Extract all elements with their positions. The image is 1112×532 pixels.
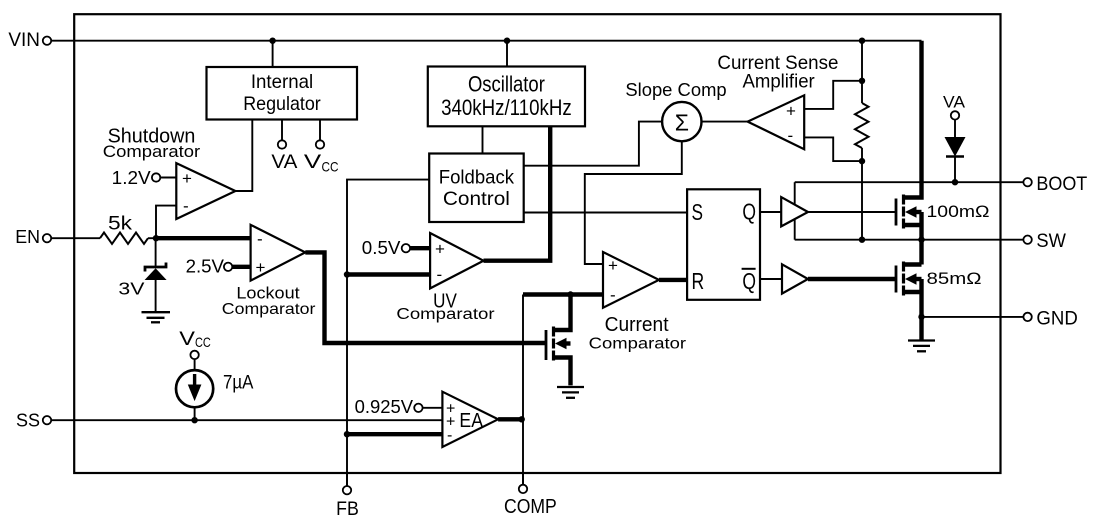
svg-text:Comparator: Comparator [589,335,686,352]
junction FB/UV [344,271,350,277]
svg-text:0.5V: 0.5V [362,238,401,258]
pin FB [336,473,359,520]
block Oscillator U5 [428,67,585,127]
svg-text:Comparator: Comparator [222,301,316,318]
svg-text:3V: 3V [118,279,144,299]
comparator U4 UV [430,233,483,288]
junction COMP/clamp FET [567,291,573,297]
wire oscillator to foldback [482,126,484,153]
svg-text:EA: EA [459,410,483,432]
diode D2 bootstrap [945,120,966,183]
zener diode D1 3V [145,263,167,312]
latch U9 SR [687,189,760,299]
wire foldback to slope comp summer [524,122,662,166]
svg-text:340kHz/110kHz: 340kHz/110kHz [441,95,572,120]
wire VIN drain rail (thick) [904,41,922,198]
node VCC (current source supply) [179,329,211,359]
svg-text:VA: VA [271,152,297,173]
wire lockout output to clamp FET gate [305,252,546,343]
wire EN to resistor [51,237,100,239]
pin COMP [504,473,557,518]
pin BOOT [795,173,1088,195]
block Foldback Control U6 [429,154,524,223]
svg-text:Amplifier: Amplifier [742,71,815,92]
svg-text:85mΩ: 85mΩ [927,269,982,288]
wire switch node (thick) [919,212,923,265]
svg-text:Lockout: Lockout [236,284,300,303]
junction SW node [918,237,924,243]
svg-text:5k: 5k [108,214,133,235]
node 1.2V reference terminal [152,173,160,181]
wire 2.5V to lockout + input [232,265,250,269]
IC boundary box [74,14,1000,473]
svg-text:GND: GND [1036,307,1077,329]
summer U7 (slope comp) [662,102,701,141]
node 2.5V reference terminal [224,263,232,271]
junction resistor top tap [859,78,865,84]
svg-text:V: V [304,152,322,173]
junction VIN/sense-resistor [859,38,865,44]
svg-text:-: - [447,427,452,444]
wire COMP to current comparator - input [523,292,603,296]
wire VIN to Internal Regulator [272,41,274,67]
wire 85 FET source to ground [919,279,923,340]
svg-text:Current: Current [605,314,669,336]
wire UV output to oscillator [484,126,551,260]
svg-text:Comparator: Comparator [103,143,201,161]
driver U13 low-side [760,264,896,293]
svg-text:FB: FB [336,498,359,520]
wire foldback to latch S input [524,212,687,214]
wire EA output to COMP [498,417,522,421]
svg-text:-: - [257,230,263,249]
svg-text:EN: EN [15,227,40,247]
svg-text:R: R [692,268,705,294]
svg-text:+: + [256,258,266,277]
label UV Comparator [396,291,494,323]
pin VIN [8,30,51,51]
svg-text:Σ: Σ [675,110,689,136]
svg-text:CC: CC [195,334,211,350]
svg-text:100mΩ: 100mΩ [927,202,990,221]
node 0.5V reference terminal [402,244,410,252]
svg-text:SW: SW [1036,230,1066,252]
op-amp U8 Current Sense Amplifier (points left) [748,95,805,149]
transistor Q1 100mOhm high-side MOSFET [896,195,922,229]
wire FB to EA - input [347,432,442,436]
wire COMP vertical [522,295,524,485]
svg-text:+: + [435,240,445,259]
svg-text:-: - [437,265,443,284]
junction GND tap [918,314,924,320]
wire VIN rail [51,40,921,42]
label Current Comparator [589,314,686,352]
svg-text:-: - [610,286,616,305]
svg-text:2.5V: 2.5V [186,257,224,277]
wire EN node to zener [155,238,157,267]
wire shutdown output to regulator [235,120,252,192]
wire 0.5V to UV + input [410,246,430,250]
wire 0.925V to EA + input [423,407,443,409]
transistor Q2 85mOhm low-side MOSFET [896,262,922,296]
wire EN node to lockout - input [156,236,251,240]
svg-text:Q: Q [742,199,756,225]
ground (clamp FET) [557,387,584,398]
wire FB to UV - input [347,272,430,276]
svg-text:COMP: COMP [504,496,557,518]
svg-text:Regulator: Regulator [243,93,321,115]
svg-text:+: + [786,102,796,121]
svg-text:-: - [788,126,794,145]
junction diode/BOOT [952,179,958,185]
svg-text:Q: Q [742,268,756,294]
pin EN [15,227,51,247]
wire summer output to current comparator + input [585,141,682,264]
label Lockout Comparator [222,284,316,318]
wire 1.2V to shutdown + input [160,177,176,179]
label Shutdown Comparator [103,125,201,161]
svg-text:SS: SS [16,410,40,430]
wire shutdown - input to EN node [156,206,176,239]
ground (power) [908,341,935,352]
op-amp U11 EA error amplifier [442,392,498,447]
svg-text:+: + [608,256,618,275]
junction resistor to SW [859,237,865,243]
svg-text:+: + [182,169,192,188]
svg-text:VIN: VIN [8,30,40,51]
junction COMP/EA output [519,416,525,422]
label Current Sense Amplifier [717,53,838,92]
wire resistor to EN node [148,237,156,239]
junction EN node [153,235,159,241]
junction VIN/oscillator [504,38,510,44]
junction resistor bottom tap [859,158,865,164]
junction FB/EA [344,431,350,437]
wire FB vertical to foldback [347,180,429,486]
op-amp U3 Lockout Comparator [251,225,306,281]
block Internal Regulator U1 [207,67,358,120]
transistor Q3 clamp MOSFET [546,295,571,386]
svg-text:-: - [183,197,189,216]
svg-text:S: S [692,199,704,225]
svg-text:Control: Control [443,189,510,210]
op-amp U2 Shutdown Comparator [176,163,235,219]
junction VIN/regulator [269,38,275,44]
wire amp + input to sense resistor top [804,81,862,109]
wire SS to EA + input [51,419,442,421]
wire amp - input to sense resistor bottom [804,137,862,161]
junction SS/current source [191,417,197,423]
wire summer input from current sense amp [702,121,748,123]
svg-text:1.2V: 1.2V [112,168,151,188]
svg-text:Internal: Internal [251,71,313,93]
pin GND [922,307,1078,329]
resistor R2 sense [855,41,869,240]
wire current comparator output to latch R [659,278,687,282]
resistor R1 5k [100,233,148,244]
svg-text:Comparator: Comparator [396,306,494,323]
svg-text:CC: CC [322,158,339,174]
svg-text:0.925V: 0.925V [355,397,414,417]
node 0.925V reference terminal [414,404,422,412]
svg-text:V: V [179,329,195,350]
node VCC (regulator output) [304,120,339,175]
pin SW [795,230,1066,252]
svg-text:VA: VA [943,93,966,112]
svg-text:Foldback: Foldback [439,166,514,188]
pin SS [16,410,51,430]
comparator U10 Current [603,252,659,308]
driver U12 high-side [760,182,896,240]
current source I1 7uA [176,359,213,420]
svg-text:BOOT: BOOT [1036,173,1087,195]
svg-text:7µA: 7µA [223,373,254,394]
wire VIN to oscillator [506,41,508,67]
svg-text:Oscillator: Oscillator [468,72,545,97]
ground (zener) [142,312,171,322]
svg-text:Slope Comp: Slope Comp [625,80,726,100]
node VA bootstrap [943,93,966,120]
node VA (regulator output) [271,120,297,174]
